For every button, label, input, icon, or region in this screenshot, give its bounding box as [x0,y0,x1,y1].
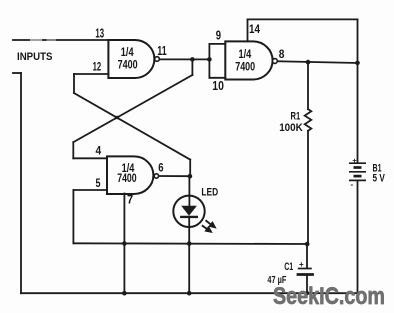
junction node pin6 [188,174,193,179]
svg-text:INPUTS: INPUTS [17,51,53,63]
svg-text:C1: C1 [284,261,293,273]
wire input line 2 horizontal stub [13,72,21,74]
junction node bracket [207,57,212,62]
battery B1 plates [349,163,366,180]
junction C1 top node [305,242,310,247]
svg-text:100K: 100K [279,122,303,134]
svg-text:5: 5 [96,176,101,190]
resistor R1 zigzag [305,109,312,131]
wire input line 1 to pin 13 [13,39,108,41]
nand gate U1b body [225,41,272,79]
wire gate2 input bracket vertical [208,44,210,78]
wire pin5 vertical down [72,190,74,243]
wire pin 9 stub [209,43,225,45]
LED light arrow 2 [202,225,211,231]
wire fade artifact on input line 1 [30,39,42,42]
junction node R1 top [306,60,311,65]
wire top supply rail [248,18,358,20]
wire R1 bottom lead down to C1 node [307,131,309,244]
wire vertical into pin6 node [189,160,191,177]
svg-text:11: 11 [157,44,166,58]
nand gate U1a body [108,40,154,78]
wire pin12 corner vertical [73,74,75,93]
svg-text:+: + [352,156,357,165]
svg-text:14: 14 [249,22,260,36]
wire pin 10 stub [209,77,225,79]
wire vertical to pin 4 [72,142,74,158]
svg-text:9: 9 [216,28,221,42]
capacitor C1 top plate [298,268,312,270]
junction pin7 ground rail [122,291,127,296]
svg-text:+: + [299,260,304,269]
wire pin 4 input stub [73,157,107,159]
capacitor C1 bottom plate [297,273,314,276]
svg-text:12: 12 [93,59,102,73]
LED light arrow 1 [206,220,215,227]
svg-text:10: 10 [212,79,224,93]
wire right rail upper to battery [357,19,359,163]
wire pin 12 input stub [74,73,108,75]
junction LED ground rail [187,291,192,296]
svg-text:SeekIC.com: SeekIC.com [273,283,385,310]
svg-text:4: 4 [96,143,102,157]
junction crossing blob [115,116,119,120]
svg-text:-: - [351,180,354,189]
junction pin7 mid wire [122,241,127,246]
wire cross-couple diagonal from pin12 to pin6 node [74,93,190,160]
wire C1 top lead [306,244,308,268]
wire pin 11 output [159,58,209,60]
svg-text:1/4: 1/4 [239,49,252,61]
svg-text:7: 7 [127,192,133,206]
wire LED anode from pin6 node [188,176,190,206]
junction node pin8 right rail [355,61,360,66]
nand gate U1a output bubble pin 11 [155,57,160,62]
svg-text:R1: R1 [291,111,301,123]
LED D1 circle [173,196,204,227]
wire vertical drop from pin11 node [191,59,193,75]
wire R1 top lead [307,62,309,109]
nand gate U1b output bubble pin 8 [273,59,278,64]
wire input line 2 vertical down to ground rail [20,73,22,293]
wire bottom ground rail [21,292,358,294]
wire pin 6 output to LED node [159,175,191,177]
wire cross-couple diagonal from pin11 node to pin4 [73,75,192,142]
svg-text:7400: 7400 [235,61,255,73]
svg-text:8: 8 [279,47,285,61]
wire right rail lower from battery [357,181,359,294]
svg-text:13: 13 [95,27,104,41]
svg-text:1/4: 1/4 [121,47,134,59]
wire LED cathode down through mid wire to ground rail [188,217,190,293]
svg-text:5 V: 5 V [373,172,386,184]
LED D1 triangle [181,206,197,216]
wire pin 5 input stub [73,189,107,191]
junction C1 ground rail [305,291,309,295]
wire C1 bottom lead [306,275,308,293]
nand gate U1c output bubble pin 6 [154,174,158,178]
wire pin 8 output [277,61,357,63]
junction node pin11 [190,57,195,62]
svg-text:LED: LED [201,187,218,199]
svg-text:7400: 7400 [118,59,138,71]
nand gate U1c body [107,156,153,194]
wire pin 14 vertical [247,19,249,41]
wire pin 7 ground vertical [123,194,125,294]
wire mid bottom ground wire [73,242,307,245]
LED D1 cathode bar [180,216,198,218]
svg-text:6: 6 [158,160,164,174]
svg-text:7400: 7400 [117,173,137,185]
junction LED mid wire [187,241,192,246]
